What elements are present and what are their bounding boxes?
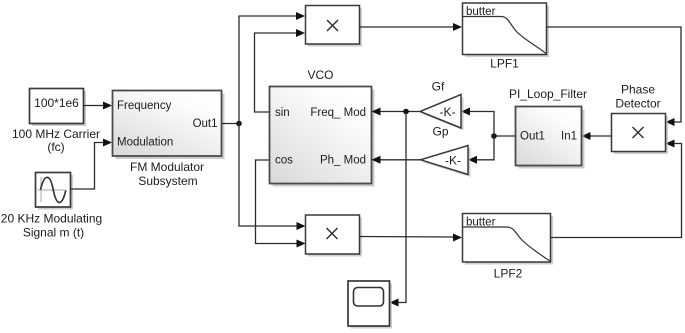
svg-text:VCO: VCO (307, 68, 333, 82)
wire: junction B up to Gf input (461, 108, 494, 137)
wire: Gp out to VCO Ph_Mod (372, 156, 421, 164)
svg-text:100 MHz Carrier: 100 MHz Carrier (12, 127, 100, 141)
wire: PI Out1 to junction B (494, 135, 516, 137)
product block bottom (multiplier) (306, 215, 363, 257)
svg-text:In1: In1 (561, 131, 577, 143)
svg-text:cos: cos (275, 154, 293, 166)
subsystem VCO (270, 87, 375, 187)
product block Phase Detector (multiplier) (612, 114, 669, 155)
svg-text:Modulation: Modulation (117, 137, 173, 149)
label: FM Modulator Subsystem (130, 160, 204, 188)
svg-text:-K-: -K- (445, 153, 461, 167)
svg-text:Gp: Gp (432, 125, 448, 139)
wire: junction C down to Scope (390, 112, 407, 307)
wire: junction B down to Gp input (468, 136, 494, 164)
svg-text:20 KHz Modulating: 20 KHz Modulating (1, 212, 102, 226)
label: Phase Detector (615, 83, 660, 111)
wire: bottom product to LPF2 (360, 234, 463, 242)
wire: sine source to FM Modulation port (71, 139, 113, 190)
label: 20 KHz Modulating Signal m (t) (1, 212, 102, 240)
svg-text:Subsystem: Subsystem (138, 174, 197, 188)
junction A dot (236, 121, 242, 127)
wire: Phase Detector out to PI_Loop_Filter In1 (582, 132, 612, 140)
junction C dot (403, 109, 409, 115)
label: 100 MHz Carrier (fc) (12, 127, 100, 154)
wire: FM Out1 to junction A (222, 123, 240, 125)
wire: VCO cos to bottom product in2 (256, 160, 306, 248)
wire: VCO sin to top product in2 (255, 29, 306, 112)
sine wave source block (36, 173, 74, 210)
svg-text:PI_Loop_Filter: PI_Loop_Filter (509, 87, 587, 101)
gain Gf (-K-) (420, 95, 464, 131)
svg-text:sin: sin (275, 107, 290, 119)
svg-text:Freq_ Mod: Freq_ Mod (310, 107, 366, 119)
wire: junction A up to top product in1 (239, 12, 305, 124)
svg-text:Gf: Gf (432, 80, 445, 94)
junction B dot (491, 133, 497, 139)
svg-text:FM Modulator: FM Modulator (130, 160, 204, 174)
svg-text:Signal m (t): Signal m (t) (23, 226, 84, 240)
svg-text:Out1: Out1 (520, 131, 545, 143)
wire: constant to FM Frequency port (84, 102, 113, 110)
svg-text:Detector: Detector (615, 97, 660, 111)
wire: junction A down to bottom product in1 (239, 124, 306, 231)
filter block LPF2 (butter) (463, 214, 554, 265)
svg-text:LPF1: LPF1 (490, 56, 519, 70)
wire: top product to LPF1 (360, 23, 463, 31)
svg-text:Phase: Phase (621, 83, 655, 97)
constant block Fc value 100*1e6 (30, 89, 87, 127)
svg-text:Frequency: Frequency (117, 100, 172, 112)
svg-text:LPF2: LPF2 (494, 266, 523, 280)
filter block LPF1 (butter) (463, 3, 550, 57)
gain Gp (-K-) (421, 146, 471, 178)
subsystem FM Modulator (113, 91, 225, 160)
svg-text:-K-: -K- (440, 105, 456, 119)
scope block (348, 281, 392, 329)
subsystem PI_Loop_Filter (516, 107, 585, 169)
svg-text:Ph_ Mod: Ph_ Mod (320, 154, 366, 166)
product block top (multiplier) (306, 6, 363, 47)
wire: LPF2 to Phase Detector in2 (551, 140, 682, 238)
wire: Gf out to VCO Freq_Mod (372, 108, 421, 116)
svg-text:(fc): (fc) (47, 140, 64, 154)
wire: LPF1 to Phase Detector in1 (547, 27, 682, 126)
svg-text:100*1e6: 100*1e6 (34, 96, 79, 110)
svg-text:Out1: Out1 (193, 118, 218, 130)
